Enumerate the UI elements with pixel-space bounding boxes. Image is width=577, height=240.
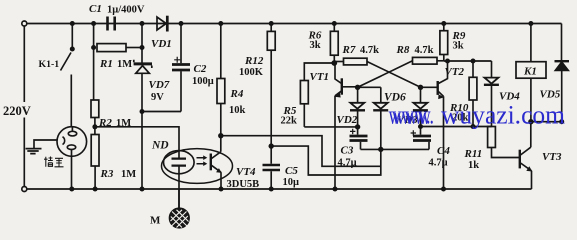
svg-text:1k: 1k <box>468 160 479 171</box>
wire cross couple R7 to VT2 base <box>367 62 421 88</box>
resistor R2 <box>91 100 99 135</box>
svg-text:wuyazi.com: wuyazi.com <box>441 101 565 130</box>
resistor R5 <box>300 63 334 127</box>
wire bottom bus <box>27 188 532 190</box>
junction rail R9 <box>441 21 446 26</box>
ground <box>26 140 58 154</box>
wire VD7 C2 ground bottom <box>142 112 181 190</box>
junction R10 top <box>471 59 476 64</box>
node VT1 collector <box>331 60 337 66</box>
junction bus R3 <box>93 187 98 192</box>
junction bus VT2 emitter <box>441 187 446 192</box>
wire K1 VD5 bottom link <box>531 121 562 123</box>
junction R2 R3 <box>92 124 97 129</box>
junction bus socket <box>69 187 74 192</box>
svg-text:1M: 1M <box>117 59 132 70</box>
capacitor C5 <box>263 146 281 189</box>
neon lamp ND <box>164 151 195 209</box>
junction VD5 bottom <box>559 119 564 124</box>
svg-text:R8: R8 <box>396 44 410 56</box>
svg-text:C5: C5 <box>285 165 298 177</box>
svg-text:ND: ND <box>151 140 169 152</box>
socket <box>57 127 87 189</box>
svg-text:R3: R3 <box>100 168 114 180</box>
resistor R12 <box>267 24 275 147</box>
diode VD1 <box>157 16 167 32</box>
svg-text:K1: K1 <box>523 66 537 78</box>
wire R1 branch drop <box>93 24 95 101</box>
svg-text:VT2: VT2 <box>445 66 465 78</box>
junction R1 right <box>140 45 145 50</box>
node VT2 base <box>418 85 423 90</box>
wire VT1 base to VD6 <box>358 86 381 88</box>
microphone M <box>170 189 190 228</box>
resistor R1 <box>97 44 142 52</box>
wire 220V left line <box>23 26 25 186</box>
svg-text:1M: 1M <box>121 169 136 180</box>
resistor R9 <box>440 24 448 62</box>
resistor R7 <box>334 58 367 65</box>
capacitor C2 <box>172 24 190 112</box>
resistor R11 <box>488 127 520 158</box>
svg-text:VT1: VT1 <box>310 71 330 83</box>
junction bus VD7 <box>140 187 145 192</box>
svg-text:4.7μ: 4.7μ <box>338 158 357 169</box>
wire W1 R5 to VD2 C3 node <box>304 126 358 128</box>
node VT3 collector <box>528 119 533 124</box>
svg-text:1M: 1M <box>116 118 131 129</box>
svg-text:R11: R11 <box>464 148 483 160</box>
relay K1 <box>516 24 546 122</box>
svg-text:220V: 220V <box>3 104 31 118</box>
svg-text:VT4: VT4 <box>236 166 256 178</box>
svg-text:C2: C2 <box>194 63 207 75</box>
watermark www.wuyazi.com <box>389 101 566 130</box>
svg-text:3k: 3k <box>453 41 464 52</box>
junction rail K1-1 <box>70 21 75 26</box>
junction R1 left <box>91 45 96 50</box>
svg-text:C1: C1 <box>89 3 102 15</box>
transistor VT3 <box>520 122 533 189</box>
junction bus C5 <box>269 187 274 192</box>
svg-text:R12: R12 <box>244 55 264 67</box>
diode VD4 <box>484 61 499 127</box>
node trigger <box>378 147 383 152</box>
svg-text:VT3: VT3 <box>542 151 562 163</box>
junction bus VT4 emitter <box>219 187 224 192</box>
svg-text:4.7k: 4.7k <box>360 45 379 56</box>
junction VD3 C4 <box>418 124 423 129</box>
svg-text:100μ: 100μ <box>192 76 214 87</box>
svg-text:R2: R2 <box>98 117 112 129</box>
svg-text:10μ: 10μ <box>283 177 300 188</box>
light arrows <box>197 155 208 166</box>
junction rail R4 <box>218 21 223 26</box>
resistor R10 <box>469 61 477 127</box>
diode VD3 <box>413 87 428 126</box>
svg-text:www.: www. <box>392 101 434 130</box>
node C5 top <box>269 143 274 148</box>
junction rail R6 <box>332 21 337 26</box>
wire trigger W3 from C5 top <box>271 146 381 175</box>
node AC terminal bottom <box>22 187 27 192</box>
capacitor C3 <box>350 127 368 149</box>
svg-text:10k: 10k <box>229 105 246 116</box>
optocoupler ND VT4 envelope <box>162 149 233 184</box>
node VT1 base <box>355 85 360 90</box>
wire R2 R3 junction to neon lamp <box>95 127 179 151</box>
phototransistor VT4 <box>211 136 222 189</box>
capacitor C4 <box>411 127 431 150</box>
resistor R3 <box>91 135 99 190</box>
svg-text:R7: R7 <box>342 44 356 56</box>
wire K1-1 drop <box>71 24 73 50</box>
svg-text:C4: C4 <box>437 145 450 157</box>
junction R10 bottom <box>471 124 476 129</box>
resistor R8 <box>413 57 444 64</box>
svg-text:VD5: VD5 <box>540 89 561 101</box>
svg-text:R4: R4 <box>230 88 244 100</box>
junction switch contact <box>70 47 75 52</box>
junction rail C2 <box>179 21 184 26</box>
svg-text:K1-1: K1-1 <box>39 59 60 70</box>
junction rail R12 <box>269 21 274 26</box>
wire cross couple R8 to VT1 base <box>358 61 413 88</box>
svg-text:1μ/400V: 1μ/400V <box>107 5 145 16</box>
svg-text:100K: 100K <box>239 67 264 78</box>
svg-text:3k: 3k <box>310 40 321 51</box>
node AC terminal top <box>22 21 27 26</box>
svg-text:M: M <box>150 215 161 227</box>
label 220V <box>2 102 43 118</box>
svg-text:4.7μ: 4.7μ <box>429 158 448 169</box>
junction VD7 ground <box>140 109 145 114</box>
node VD2 C3 <box>355 124 360 129</box>
svg-text:4.7k: 4.7k <box>415 45 434 56</box>
svg-text:R1: R1 <box>99 58 113 70</box>
transistor VT2 <box>421 61 448 189</box>
wire trigger W2 from VT4 collector <box>221 136 381 167</box>
diode VD6 <box>373 87 388 149</box>
svg-text:22k: 22k <box>281 116 298 127</box>
wire C3 C4 bottoms trigger link <box>361 148 430 150</box>
junction rail K1 <box>528 21 533 26</box>
diode VD5 <box>555 24 570 122</box>
svg-text:VD1: VD1 <box>151 38 172 50</box>
wire top rail <box>27 23 562 25</box>
diode VD2 <box>350 87 365 127</box>
svg-text:VD7: VD7 <box>149 79 170 91</box>
svg-text:3DU5B: 3DU5B <box>227 179 260 190</box>
resistor R6 <box>330 24 338 64</box>
switch K1-1 <box>61 53 72 128</box>
junction VT2 collector <box>445 59 450 64</box>
svg-text:C3: C3 <box>341 145 354 157</box>
wire VT2 collector node <box>444 60 492 62</box>
transistor VT1 <box>334 63 357 189</box>
junction rail VD7 <box>140 21 145 26</box>
capacitor C1 <box>108 17 115 31</box>
zener VD7 <box>134 24 152 112</box>
svg-text:VD2: VD2 <box>337 114 358 126</box>
svg-text:9V: 9V <box>151 92 164 103</box>
resistor R4 <box>217 24 225 136</box>
label socket chinese <box>44 157 64 167</box>
junction bus VT1 emitter <box>333 187 338 192</box>
node VT4 collector <box>218 133 223 138</box>
junction rail R1 <box>91 21 96 26</box>
wire VD3 C4 node to R11 <box>421 126 492 128</box>
